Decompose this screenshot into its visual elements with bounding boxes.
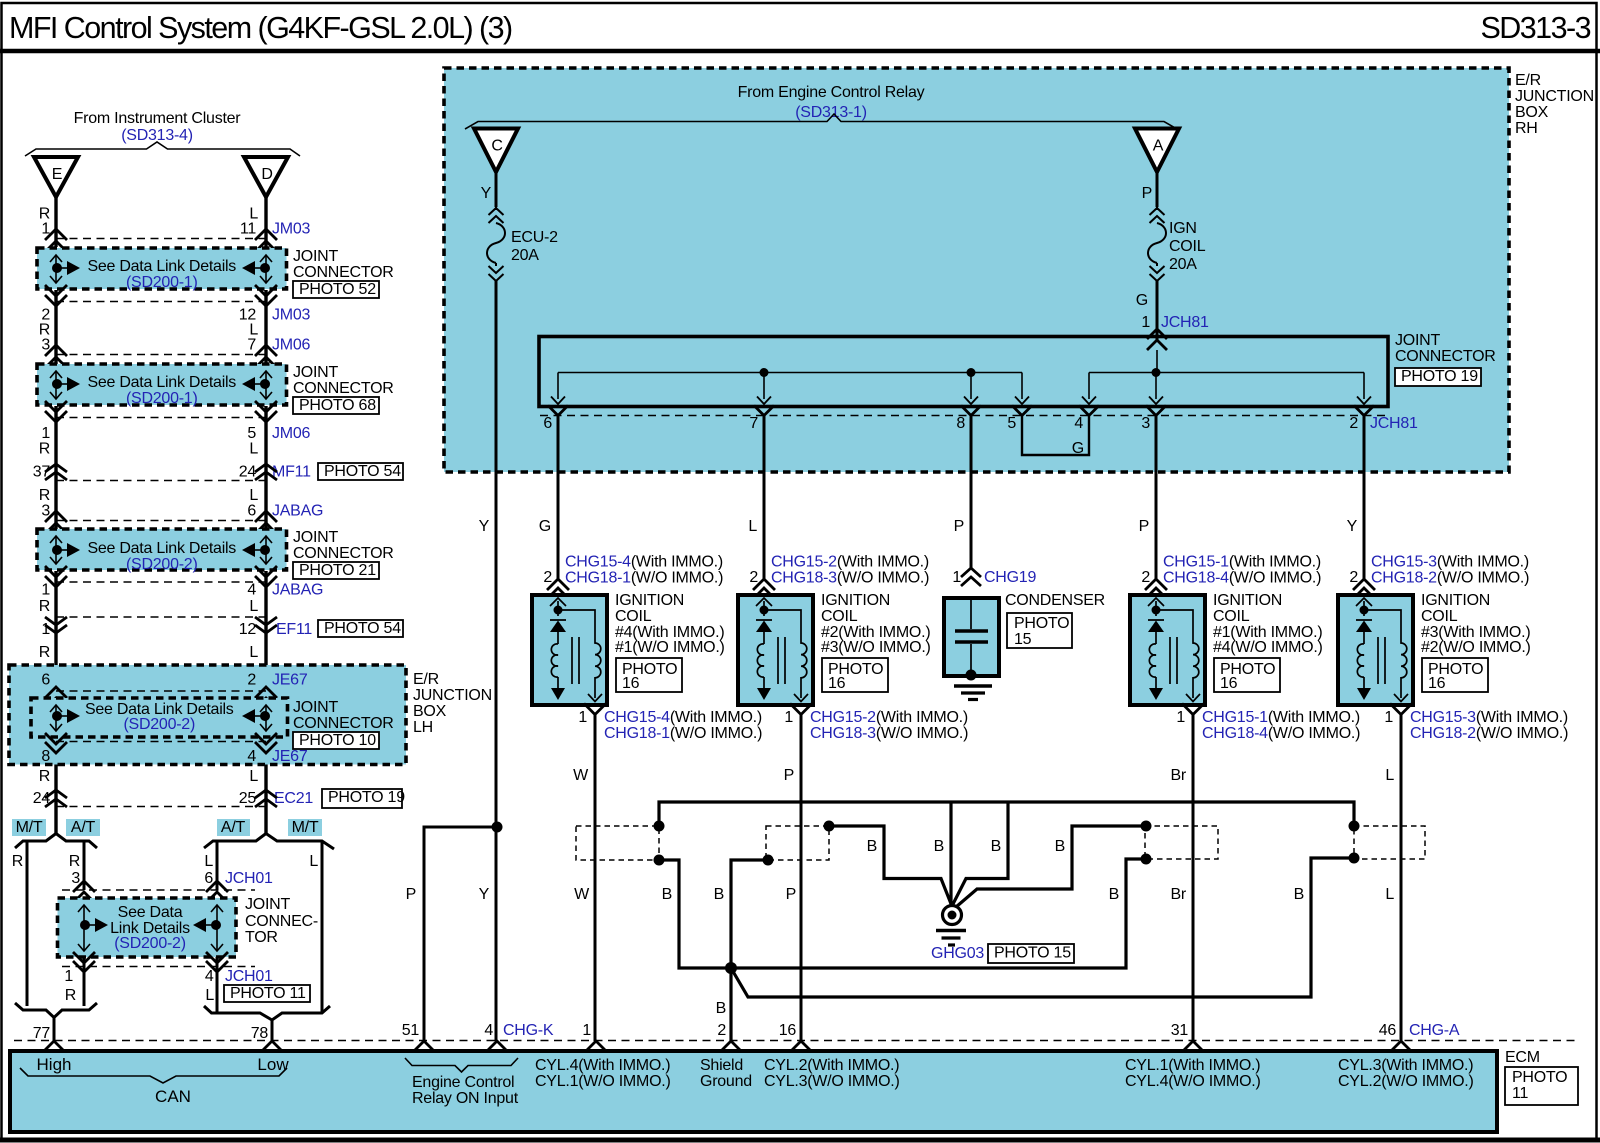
- svg-text:P: P: [1139, 518, 1149, 535]
- svg-text:P: P: [406, 886, 416, 903]
- svg-text:CHG15-3(With IMMO.): CHG15-3(With IMMO.): [1410, 709, 1568, 726]
- svg-text:L: L: [205, 987, 214, 1004]
- svg-text:6: 6: [543, 415, 552, 432]
- svg-text:P: P: [784, 767, 794, 784]
- svg-text:2: 2: [247, 672, 256, 689]
- JCH81 input wire to bus: [1156, 350, 1158, 373]
- wire D (L, CAN Low): [264, 197, 267, 834]
- svg-text:B: B: [1294, 886, 1304, 903]
- svg-text:7: 7: [247, 337, 256, 354]
- ignition coil box: [738, 595, 813, 705]
- svg-text:1: 1: [41, 425, 50, 442]
- fuse IGN COIL 20A: [1150, 208, 1165, 215]
- svg-text:CAN: CAN: [155, 1087, 191, 1106]
- terminal chevrons condenser top: [961, 568, 981, 577]
- joint connector box SD200-2 (PHOTO 10): [31, 698, 288, 737]
- terminal chevrons MF11: [45, 464, 67, 472]
- svg-text:CHG18-3(W/O IMMO.): CHG18-3(W/O IMMO.): [810, 725, 968, 742]
- shield drain junction dots: [654, 821, 665, 832]
- condenser ground connection: [966, 670, 977, 681]
- terminal chevrons JCH01 lower: [73, 952, 95, 963]
- svg-text:B: B: [1055, 838, 1065, 855]
- svg-text:L: L: [1385, 886, 1394, 903]
- svg-text:PHOTO 54: PHOTO 54: [324, 620, 401, 637]
- svg-text:IGNITION: IGNITION: [1213, 592, 1282, 609]
- svg-text:CONNECTOR: CONNECTOR: [1395, 348, 1496, 365]
- svg-text:JABAG: JABAG: [272, 503, 323, 520]
- svg-text:(SD200-2): (SD200-2): [123, 716, 195, 733]
- svg-text:#3(W/O IMMO.): #3(W/O IMMO.): [821, 639, 931, 656]
- svg-text:Y: Y: [481, 185, 492, 202]
- svg-text:PHOTO: PHOTO: [1512, 1069, 1567, 1086]
- svg-text:77: 77: [33, 1025, 51, 1042]
- terminal chevrons JM03 lower: [45, 285, 67, 296]
- svg-text:3: 3: [1141, 415, 1150, 432]
- svg-text:GHG03: GHG03: [931, 945, 984, 962]
- svg-text:JOINT: JOINT: [293, 364, 338, 381]
- connector EC21 dashed line: [56, 806, 266, 808]
- connector JABAG upper dashed line: [56, 520, 266, 522]
- svg-text:CHG15-1(With IMMO.): CHG15-1(With IMMO.): [1202, 709, 1360, 726]
- svg-text:JABAG: JABAG: [272, 582, 323, 599]
- svg-text:46: 46: [1379, 1022, 1397, 1039]
- svg-text:R: R: [69, 853, 80, 870]
- drain branch B to ground: [953, 802, 1008, 904]
- wire Y from fuse down to ECM pin 4: [495, 281, 498, 1041]
- svg-text:B: B: [867, 838, 877, 855]
- svg-text:EF11: EF11: [276, 621, 312, 638]
- svg-text:G: G: [1136, 292, 1148, 309]
- svg-text:JCH01: JCH01: [225, 968, 273, 985]
- svg-text:R: R: [39, 441, 50, 458]
- svg-text:Y: Y: [479, 518, 490, 535]
- svg-text:E/R: E/R: [413, 671, 439, 688]
- coil core lines: [572, 637, 579, 684]
- svg-text:#2(W/O IMMO.): #2(W/O IMMO.): [1421, 639, 1531, 656]
- brace under From Engine Control Relay: [465, 114, 1177, 129]
- svg-text:JOINT: JOINT: [1395, 332, 1440, 349]
- svg-text:8: 8: [41, 748, 50, 765]
- svg-text:Engine Control: Engine Control: [412, 1074, 514, 1091]
- svg-text:CHG15-2(With IMMO.): CHG15-2(With IMMO.): [810, 709, 968, 726]
- joint connector box SD200-2 (PHOTO 21): [37, 529, 287, 570]
- terminal chevrons JCH81 bottom: [548, 406, 568, 416]
- wire Br cylinder 1 signal: [1192, 715, 1195, 1042]
- svg-text:B: B: [662, 886, 672, 903]
- coil secondary winding: [1156, 610, 1199, 698]
- connector D triangle: [244, 157, 288, 197]
- svg-text:2: 2: [1349, 415, 1358, 432]
- svg-text:CHG19: CHG19: [984, 569, 1036, 586]
- terminal chevrons JE67 lower: [45, 733, 67, 744]
- svg-text:PHOTO 11: PHOTO 11: [230, 985, 306, 1002]
- svg-text:1: 1: [64, 968, 73, 985]
- svg-text:CONNECTOR: CONNECTOR: [293, 380, 394, 397]
- connector JCH01 upper dashed line: [62, 889, 255, 891]
- terminal chevrons JABAG upper: [45, 511, 67, 522]
- svg-text:4: 4: [247, 748, 256, 765]
- svg-text:20A: 20A: [1169, 256, 1197, 273]
- svg-text:8: 8: [956, 415, 965, 432]
- ECM connector dashed line: [14, 1040, 1577, 1042]
- svg-text:Relay ON Input: Relay ON Input: [412, 1090, 519, 1107]
- svg-text:CHG15-4(With IMMO.): CHG15-4(With IMMO.): [565, 554, 723, 571]
- merge of M/T and A/T branches to ECM pin 77: [15, 1003, 97, 1041]
- svg-text:EC21: EC21: [274, 790, 313, 807]
- svg-text:TOR: TOR: [245, 929, 278, 946]
- label Engine Control Relay ON Input: [405, 1058, 518, 1072]
- svg-text:CHG18-3(W/O IMMO.): CHG18-3(W/O IMMO.): [771, 570, 929, 587]
- svg-text:CONNECTOR: CONNECTOR: [293, 715, 394, 732]
- drain CYL3 bottom to collector: [731, 858, 1354, 997]
- connector JCH01 lower dashed line: [62, 966, 255, 968]
- svg-text:51: 51: [402, 1022, 420, 1039]
- svg-text:1: 1: [1141, 314, 1150, 331]
- svg-text:IGNITION: IGNITION: [615, 592, 684, 609]
- svg-text:6: 6: [41, 672, 50, 689]
- title divider line: [0, 49, 1600, 54]
- A/T highlight label right: [217, 819, 250, 836]
- svg-text:BOX: BOX: [413, 703, 447, 720]
- ground drain bus top horizontal: [659, 802, 1354, 826]
- terminal chevrons coil top: [547, 579, 569, 590]
- svg-text:PHOTO: PHOTO: [1014, 615, 1069, 632]
- svg-text:#1(W/O IMMO.): #1(W/O IMMO.): [615, 639, 725, 656]
- terminal chevrons coil top: [753, 579, 775, 590]
- ECM terminal chevrons: [43, 1041, 65, 1052]
- svg-text:RH: RH: [1515, 120, 1538, 137]
- svg-text:COIL: COIL: [1169, 238, 1206, 255]
- joint connector box SD200-1 (PHOTO 52): [37, 248, 287, 289]
- wire E (R, CAN High): [54, 197, 57, 834]
- connector JE67 upper dashed line: [56, 690, 266, 692]
- svg-text:CONNEC-: CONNEC-: [245, 913, 318, 930]
- svg-text:Br: Br: [1171, 886, 1187, 903]
- svg-text:JCH01: JCH01: [225, 870, 273, 887]
- svg-text:A/T: A/T: [71, 819, 96, 836]
- svg-text:1: 1: [784, 709, 793, 726]
- svg-text:1: 1: [41, 621, 50, 638]
- E/R junction box LH: [9, 665, 406, 765]
- svg-text:PHOTO 68: PHOTO 68: [299, 397, 376, 414]
- svg-text:L: L: [249, 441, 258, 458]
- svg-text:1: 1: [41, 582, 50, 599]
- svg-text:L: L: [204, 853, 213, 870]
- coil internal: entry arrow, diode, primary winding: [1356, 598, 1372, 606]
- svg-text:See Data Link Details: See Data Link Details: [87, 540, 236, 557]
- svg-text:MF11: MF11: [272, 464, 311, 481]
- svg-text:G: G: [1072, 440, 1084, 457]
- svg-text:BOX: BOX: [1515, 104, 1549, 121]
- svg-text:CYL.1(With IMMO.): CYL.1(With IMMO.): [1125, 1057, 1260, 1074]
- svg-text:CHG18-4(W/O IMMO.): CHG18-4(W/O IMMO.): [1202, 725, 1360, 742]
- svg-text:R: R: [12, 853, 23, 870]
- svg-text:16: 16: [622, 675, 640, 692]
- svg-text:B: B: [714, 886, 724, 903]
- svg-text:R: R: [39, 768, 50, 785]
- svg-text:JM03: JM03: [272, 221, 310, 238]
- svg-text:4: 4: [247, 582, 256, 599]
- svg-text:11: 11: [1512, 1085, 1528, 1102]
- wire L to ignition coil B: [763, 416, 766, 581]
- G jumper between pins 5 and 4: [1022, 416, 1089, 456]
- drain CYL4 bottom to collector: [659, 859, 1146, 968]
- shield dashed box CYL4: [576, 826, 659, 860]
- svg-text:B: B: [716, 1000, 726, 1017]
- svg-text:CONDENSER: CONDENSER: [1005, 592, 1105, 609]
- coil core lines: [1378, 637, 1385, 684]
- connector JE67 lower dashed line: [56, 741, 266, 743]
- svg-text:COIL: COIL: [615, 608, 652, 625]
- svg-text:G: G: [539, 518, 551, 535]
- wire G from fuse to JCH81 pin 1: [1156, 281, 1159, 340]
- svg-text:(SD200-2): (SD200-2): [114, 935, 186, 952]
- wire Y to ignition coil D: [1363, 416, 1366, 581]
- svg-text:IGNITION: IGNITION: [821, 592, 890, 609]
- svg-text:JUNCTION: JUNCTION: [413, 687, 492, 704]
- svg-text:L: L: [249, 487, 258, 504]
- svg-text:JUNCTION: JUNCTION: [1515, 88, 1594, 105]
- svg-text:2: 2: [1141, 569, 1150, 586]
- wire P cylinder 2 signal: [800, 715, 803, 1042]
- svg-text:16: 16: [779, 1022, 797, 1039]
- coil secondary winding: [558, 610, 601, 698]
- terminal chevrons JABAG lower: [45, 566, 67, 577]
- drain CYL2 bottom to ECM pin 2: [731, 860, 768, 1041]
- svg-text:5: 5: [247, 425, 256, 442]
- wires below JCH01: [84, 957, 217, 1012]
- E/R junction box RH (engine relay area): [444, 68, 1509, 472]
- connector JABAG lower dashed line: [56, 581, 266, 583]
- svg-text:L: L: [309, 853, 318, 870]
- coil internal: entry arrow, diode, primary winding: [550, 598, 566, 606]
- svg-text:CHG18-4(W/O IMMO.): CHG18-4(W/O IMMO.): [1163, 570, 1321, 587]
- svg-text:PHOTO 10: PHOTO 10: [299, 732, 376, 749]
- svg-text:L: L: [249, 768, 258, 785]
- svg-text:4: 4: [484, 1022, 493, 1039]
- connector JM03 lower dashed line: [56, 301, 266, 303]
- svg-text:1: 1: [1384, 709, 1393, 726]
- svg-text:LH: LH: [413, 719, 433, 736]
- svg-text:P: P: [954, 518, 964, 535]
- svg-text:1: 1: [1176, 709, 1185, 726]
- svg-text:E/R: E/R: [1515, 72, 1541, 89]
- terminal chevrons JM06 upper: [45, 345, 67, 356]
- svg-text:24: 24: [239, 464, 257, 481]
- drain CYL1 top to ground: [956, 826, 1146, 907]
- svg-text:1: 1: [582, 1022, 591, 1039]
- svg-text:See Data Link Details: See Data Link Details: [87, 374, 236, 391]
- terminal chevrons EC21: [45, 790, 67, 798]
- svg-text:IGN: IGN: [1169, 220, 1197, 237]
- svg-text:COIL: COIL: [1213, 608, 1250, 625]
- svg-text:PHOTO 52: PHOTO 52: [299, 281, 376, 298]
- connector E triangle: [34, 157, 78, 197]
- svg-text:IGNITION: IGNITION: [1421, 592, 1490, 609]
- svg-text:A/T: A/T: [221, 819, 246, 836]
- wire L cylinder 3 signal: [1400, 715, 1403, 1042]
- svg-text:Br: Br: [1171, 767, 1187, 784]
- svg-text:78: 78: [251, 1025, 269, 1042]
- ignition coil box: [1130, 595, 1205, 705]
- shield dashed box CYL1: [1145, 826, 1218, 859]
- svg-text:JCH81: JCH81: [1161, 314, 1209, 331]
- svg-text:CHG-K: CHG-K: [503, 1022, 554, 1039]
- svg-text:JE67: JE67: [272, 672, 308, 689]
- svg-text:(SD200-2): (SD200-2): [126, 556, 198, 573]
- svg-text:6: 6: [247, 503, 256, 520]
- svg-text:MFI Control System (G4KF-GSL 2: MFI Control System (G4KF-GSL 2.0L) (3): [9, 11, 512, 45]
- svg-text:CYL.3(W/O IMMO.): CYL.3(W/O IMMO.): [764, 1073, 900, 1090]
- ECM box: [10, 1051, 1497, 1132]
- svg-text:16: 16: [1220, 675, 1238, 692]
- junction dots on bus: [760, 368, 769, 377]
- svg-text:16: 16: [1428, 675, 1446, 692]
- svg-text:31: 31: [1171, 1022, 1189, 1039]
- svg-text:JCH81: JCH81: [1370, 415, 1418, 432]
- svg-text:CONNECTOR: CONNECTOR: [293, 545, 394, 562]
- svg-text:JM03: JM03: [272, 307, 310, 324]
- svg-text:High: High: [37, 1055, 72, 1074]
- JCH81 pin drop wires: [557, 373, 559, 400]
- svg-text:#4(W/O IMMO.): #4(W/O IMMO.): [1213, 639, 1323, 656]
- wire from A (P): [1156, 172, 1159, 207]
- coil core lines: [1170, 637, 1177, 684]
- terminal chevron coil bottom: [1390, 704, 1412, 715]
- svg-text:2: 2: [749, 569, 758, 586]
- Y wire branch to ECM pin 51: [424, 827, 497, 1041]
- wire W cylinder 4 signal: [594, 715, 597, 1042]
- svg-text:JM06: JM06: [272, 425, 310, 442]
- svg-text:1: 1: [952, 569, 961, 586]
- svg-text:Y: Y: [479, 886, 490, 903]
- svg-text:L: L: [249, 644, 258, 661]
- terminal chevrons EF11: [45, 617, 67, 625]
- connector A triangle: [1135, 129, 1179, 173]
- svg-text:CHG-A: CHG-A: [1409, 1022, 1460, 1039]
- svg-text:5: 5: [1007, 415, 1016, 432]
- coil internal: entry arrow, diode, primary winding: [1148, 598, 1164, 606]
- wire D split to A/T and M/T branches: [204, 834, 334, 1012]
- svg-text:CHG15-2(With IMMO.): CHG15-2(With IMMO.): [771, 554, 929, 571]
- svg-text:2: 2: [543, 569, 552, 586]
- shield dashed box CYL2: [766, 826, 829, 860]
- svg-text:PHOTO 19: PHOTO 19: [328, 789, 405, 806]
- svg-text:R: R: [39, 598, 50, 615]
- svg-text:(SD313-1): (SD313-1): [795, 104, 867, 121]
- brace under From Instrument Cluster: [25, 142, 300, 156]
- svg-text:P: P: [1142, 185, 1152, 202]
- svg-text:JOINT: JOINT: [293, 529, 338, 546]
- condenser box: [944, 598, 999, 676]
- A/T highlight label left: [66, 819, 100, 836]
- JCH81 internal bus left: [558, 372, 1022, 374]
- svg-text:PHOTO 21: PHOTO 21: [299, 562, 376, 579]
- wire P to condenser: [970, 416, 973, 570]
- svg-text:JOINT: JOINT: [293, 248, 338, 265]
- coil core lines: [778, 637, 785, 684]
- svg-text:CYL.4(With IMMO.): CYL.4(With IMMO.): [535, 1057, 670, 1074]
- svg-text:PHOTO 54: PHOTO 54: [324, 463, 401, 480]
- svg-text:2: 2: [1349, 569, 1358, 586]
- svg-text:B: B: [934, 838, 944, 855]
- svg-text:P: P: [786, 886, 796, 903]
- svg-text:12: 12: [239, 621, 257, 638]
- bottom frame thick line: [0, 1138, 1600, 1143]
- svg-text:CONNECTOR: CONNECTOR: [293, 264, 394, 281]
- svg-text:A: A: [1153, 138, 1164, 155]
- svg-text:CYL.2(W/O IMMO.): CYL.2(W/O IMMO.): [1338, 1073, 1474, 1090]
- svg-text:See Data Link Details: See Data Link Details: [87, 258, 236, 275]
- joint connector JCH81 box: [539, 337, 1388, 407]
- svg-text:L: L: [748, 518, 757, 535]
- coil secondary winding: [1364, 610, 1407, 698]
- svg-text:R: R: [65, 987, 76, 1004]
- coil secondary winding: [764, 610, 807, 698]
- svg-text:CHG15-3(With IMMO.): CHG15-3(With IMMO.): [1371, 554, 1529, 571]
- svg-text:E: E: [52, 166, 62, 183]
- terminal chevron coil bottom: [1182, 704, 1204, 715]
- joint connector box SD200-2 (JCH01): [58, 898, 237, 957]
- svg-text:B: B: [1109, 886, 1119, 903]
- svg-text:CHG18-2(W/O IMMO.): CHG18-2(W/O IMMO.): [1410, 725, 1568, 742]
- svg-text:L: L: [249, 598, 258, 615]
- connector MF11 dashed line: [56, 480, 266, 482]
- svg-text:PHOTO 19: PHOTO 19: [1401, 368, 1478, 385]
- svg-text:W: W: [574, 886, 590, 903]
- ignition coil box: [532, 595, 607, 705]
- svg-text:L: L: [1385, 767, 1394, 784]
- svg-text:ECU-2: ECU-2: [511, 229, 558, 246]
- shield dashed box CYL3: [1354, 826, 1425, 859]
- svg-text:4: 4: [1074, 415, 1083, 432]
- svg-text:JE67: JE67: [272, 748, 308, 765]
- svg-text:11: 11: [240, 221, 256, 238]
- coil internal: entry arrow, diode, primary winding: [756, 598, 772, 606]
- svg-text:2: 2: [717, 1022, 726, 1039]
- svg-text:20A: 20A: [511, 247, 539, 264]
- terminal chevrons coil top: [1145, 579, 1167, 590]
- svg-text:From Engine Control Relay: From Engine Control Relay: [738, 84, 925, 101]
- svg-text:See Data: See Data: [118, 904, 183, 921]
- M/T highlight label right: [288, 819, 322, 836]
- svg-text:Ground: Ground: [700, 1073, 752, 1090]
- wire G to ignition coil A: [557, 416, 560, 581]
- terminal chevron coil bottom: [790, 704, 812, 715]
- connector EF11 dashed line: [56, 616, 266, 618]
- svg-text:7: 7: [749, 415, 758, 432]
- svg-text:CHG15-4(With IMMO.): CHG15-4(With IMMO.): [604, 709, 762, 726]
- wire E split to M/T and A/T branches: [15, 834, 97, 1007]
- svg-text:CHG18-2(W/O IMMO.): CHG18-2(W/O IMMO.): [1371, 570, 1529, 587]
- svg-text:(SD200-1): (SD200-1): [126, 390, 198, 407]
- svg-text:SD313-3: SD313-3: [1480, 11, 1590, 45]
- svg-text:CHG15-1(With IMMO.): CHG15-1(With IMMO.): [1163, 554, 1321, 571]
- connector C triangle: [474, 129, 518, 173]
- svg-text:CYL.2(With IMMO.): CYL.2(With IMMO.): [764, 1057, 899, 1074]
- connector JM03 upper dashed line: [56, 238, 266, 240]
- collector junction dot: [725, 962, 737, 974]
- svg-text:ECM: ECM: [1505, 1049, 1540, 1066]
- connector JCH81 bottom dashed line: [540, 415, 1388, 417]
- svg-text:16: 16: [828, 675, 846, 692]
- M/T highlight label left: [12, 819, 46, 836]
- svg-text:CYL.1(W/O IMMO.): CYL.1(W/O IMMO.): [535, 1073, 671, 1090]
- svg-text:W: W: [573, 767, 589, 784]
- svg-text:CHG18-1(W/O IMMO.): CHG18-1(W/O IMMO.): [565, 570, 723, 587]
- svg-text:M/T: M/T: [16, 819, 43, 836]
- svg-text:CYL.4(W/O IMMO.): CYL.4(W/O IMMO.): [1125, 1073, 1261, 1090]
